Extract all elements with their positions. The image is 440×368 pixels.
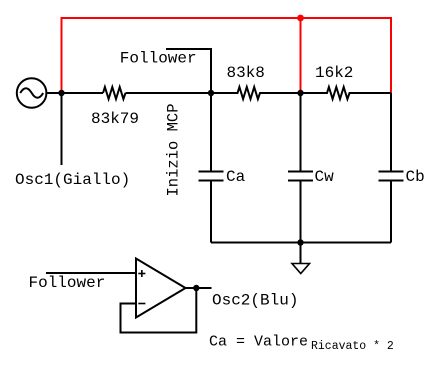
label Ca (226, 168, 246, 186)
value label 83k79 (91, 110, 139, 128)
label Osc1(Giallo) (15, 171, 130, 189)
svg-text:Ca = Valore: Ca = Valore (209, 334, 308, 351)
label Follower bottom (29, 274, 106, 292)
svg-text:Ricavato * 2: Ricavato * 2 (311, 340, 394, 353)
wire red middle drop (300, 17, 302, 92)
wire resistor to node A (126, 92, 212, 94)
node A junction (208, 90, 214, 96)
wire red top rail (62, 17, 392, 19)
ground (292, 243, 310, 274)
wire red right drop (390, 17, 392, 93)
node red junction top (297, 15, 304, 22)
node ground junction (297, 239, 303, 245)
svg-text:Follower: Follower (120, 50, 197, 68)
wire Osc1 probe stub (61, 93, 63, 165)
wire op-amp output (186, 287, 212, 289)
capacitor Cw (288, 93, 313, 243)
capacitor Ca (199, 93, 224, 243)
svg-text:Osc1(Giallo): Osc1(Giallo) (15, 171, 130, 189)
svg-text:Osc2(Blu): Osc2(Blu) (212, 292, 298, 310)
svg-text:83k8: 83k8 (227, 64, 265, 82)
resistor 83k8 (211, 87, 301, 99)
svg-text:Inizio MCP: Inizio MCP (165, 103, 183, 196)
label Ricavato * 2 subscript (311, 340, 394, 353)
label Inizio MCP (165, 103, 183, 196)
wire Follower probe top (166, 49, 211, 93)
resistor 83k79 (103, 87, 126, 99)
svg-text:Follower: Follower (29, 274, 106, 292)
AC source V1 (17, 78, 47, 108)
node B junction (297, 90, 303, 96)
wire bottom rail (211, 242, 391, 244)
svg-text:Ca: Ca (226, 168, 246, 186)
svg-text:83k79: 83k79 (91, 110, 139, 128)
label Cw (315, 168, 335, 186)
svg-text:Cb: Cb (406, 168, 425, 186)
pin - label (138, 303, 145, 305)
value label 16k2 (315, 64, 353, 82)
node output junction (193, 285, 199, 291)
wire feedback loop (121, 288, 197, 333)
wire op-amp + input (46, 272, 136, 274)
wire red left drop (61, 17, 63, 92)
capacitor Cb (379, 93, 404, 243)
label Ca = Valore (209, 334, 308, 351)
wire source to node A (46, 92, 103, 94)
resistor 16k2 (301, 87, 392, 99)
value label 83k8 (227, 64, 265, 82)
svg-text:Cw: Cw (315, 168, 335, 186)
label Follower top (120, 50, 197, 68)
label Osc2(Blu) (212, 292, 298, 310)
pin + label (138, 270, 145, 277)
op-amp U1 (136, 259, 186, 318)
svg-text:16k2: 16k2 (315, 64, 353, 82)
node source junction (58, 90, 64, 96)
label Cb (406, 168, 425, 186)
